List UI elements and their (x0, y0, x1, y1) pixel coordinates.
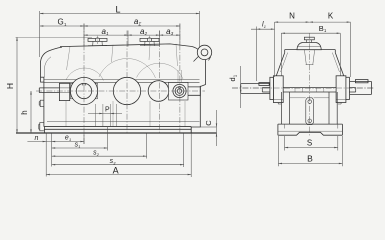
right view horizontal centerline (232, 87, 374, 89)
input shaft key (259, 83, 269, 86)
extension line C upper (200, 126, 216, 128)
housing right edge upper (205, 59, 207, 85)
lifting eye boss (194, 57, 211, 62)
svg-text:C: C (204, 120, 213, 126)
dimension L (40, 13, 200, 15)
extension B1 right (339, 33, 341, 75)
extension key left end (256, 27, 258, 82)
dimension B1 (281, 32, 340, 34)
lower body right wall (329, 92, 337, 124)
dimension e1 (46, 141, 84, 143)
cover flange lip (41, 77, 44, 82)
parting flange band (262, 88, 355, 92)
housing left wall (43, 82, 45, 127)
base bolt tick right (337, 124, 339, 128)
output shaft stub (188, 86, 200, 96)
dimension a-sigma (84, 25, 180, 27)
horizontal centerline left view (36, 90, 205, 92)
extension below shaft1 (83, 134, 85, 145)
cover left wall (39, 64, 41, 78)
shaft 2 bearing circle (113, 77, 140, 104)
housing top-right corner curve (192, 47, 206, 60)
foot extension line A left (45, 134, 47, 177)
cover inner right slope (332, 53, 339, 72)
housing right edge step (191, 85, 205, 128)
right cap bottom line (336, 99, 346, 101)
bolt extension line 3 (146, 134, 148, 159)
cover right slope (335, 53, 343, 76)
svg-text:n: n (35, 135, 39, 142)
bolt line P left (94, 104, 96, 127)
dimension s1 (52, 147, 108, 149)
svg-text:K: K (328, 12, 334, 21)
centerline shaft 2 (126, 31, 128, 134)
output bearing boss (169, 83, 189, 101)
input shaft (39, 88, 59, 93)
breather dome mid line (297, 46, 320, 48)
housing top-left cover arc (40, 47, 62, 63)
gear arc over shaft 3 (137, 63, 184, 79)
output shaft key (355, 80, 368, 83)
svg-text:H: H (5, 83, 15, 89)
bolt line P a (102, 104, 104, 127)
rib line 3 (149, 44, 150, 60)
svg-text:S: S (307, 139, 312, 148)
cap 2 center tick (149, 36, 151, 44)
shaft 1 bore circle (76, 83, 91, 98)
flange tick 4 (323, 88, 325, 92)
bolt extension line 2 (107, 127, 109, 151)
extension B right (341, 136, 343, 166)
bolt extension line 1 (51, 134, 53, 167)
dimension a1 (84, 34, 128, 36)
svg-text:L: L (115, 4, 120, 14)
extension right cap face (349, 22, 351, 77)
housing lower inner line (47, 121, 200, 123)
left cap bottom line (273, 99, 283, 101)
svg-text:A: A (113, 166, 119, 176)
right bearing boss (336, 76, 346, 103)
lower rib 2 (112, 101, 114, 127)
dimension a2 (128, 34, 160, 36)
cover left slope (276, 53, 284, 76)
svg-text:B: B (307, 154, 313, 164)
right view vertical centerline (308, 33, 310, 137)
right view horizontal centerline overlay (232, 87, 374, 89)
lower rib 4 (184, 101, 186, 127)
left bearing boss (273, 76, 283, 103)
dimension d1 (240, 66, 242, 108)
shaft 3 bearing circle (148, 81, 169, 102)
oil filler neck right (313, 50, 315, 65)
housing base foot (44, 127, 191, 133)
lifting eye outer circle (197, 45, 211, 59)
extension shaft4 top (179, 24, 181, 46)
rib line 2 (112, 45, 114, 62)
oil gauge lower hole (308, 119, 312, 123)
bolt line P right (116, 104, 118, 127)
base plate (278, 124, 343, 135)
inspection cap 2 (140, 38, 159, 41)
base bottom profile (278, 132, 343, 135)
extension shaft2 top (127, 31, 129, 47)
right bearing cap (346, 77, 350, 99)
lower rib 3 (149, 101, 151, 127)
extension left cap face (274, 22, 276, 77)
shaft 1 keyway (82, 84, 86, 86)
gear arc over shaft 2 (99, 58, 156, 78)
centerline shaft 4 (179, 24, 181, 134)
flange tick 2 (301, 88, 303, 92)
rib line 4 (176, 44, 178, 66)
dimension K (309, 21, 350, 23)
oil gauge upper hole (308, 100, 312, 104)
centerline shaft 1 (83, 24, 85, 145)
foot extension line A right (190, 134, 192, 178)
eye support ribs (178, 70, 182, 82)
housing inner cover arc (44, 57, 51, 77)
dimension h (30, 91, 32, 133)
bolt line P b (109, 104, 111, 127)
extension B left (277, 136, 279, 166)
extension line C vertical (216, 110, 218, 146)
left boss bottom step (278, 103, 281, 105)
breather knob (304, 37, 314, 40)
base inner line (278, 130, 343, 132)
rib line 1 (67, 46, 71, 70)
dimension s2 (52, 155, 147, 157)
dimension a3 (160, 34, 180, 36)
dimension A (46, 174, 191, 176)
dimension S (285, 147, 338, 149)
extension S right (337, 136, 339, 151)
housing top edge (60, 44, 192, 47)
bearing boss shaft 1 (71, 83, 98, 99)
oil level gauge tab (39, 100, 44, 106)
output shaft end view (350, 82, 372, 95)
flange tick 1 (294, 88, 296, 92)
oil filler neck left (304, 50, 306, 65)
parting flange line lower (44, 81, 200, 83)
breather dome (297, 43, 321, 50)
extension shaft3 top (159, 31, 161, 47)
lower body rib line (290, 97, 306, 99)
lower rib 1 (65, 101, 67, 127)
centerline shaft 3 (159, 31, 161, 134)
breather legs (307, 40, 312, 43)
svg-text:P: P (105, 107, 110, 114)
extension S left (284, 136, 286, 151)
oil drain plug tab (39, 123, 44, 131)
left view ground/base line (16, 132, 217, 134)
base bolt tick left (284, 124, 286, 128)
flange tick 3 (316, 88, 318, 92)
dimension B (278, 162, 342, 164)
svg-text:h: h (20, 110, 29, 114)
lower body left wall (281, 92, 289, 124)
input shaft end view (241, 84, 270, 94)
dimension C (216, 123, 217, 127)
gear arc over shaft 1 (66, 68, 104, 80)
extension B1 left (280, 33, 282, 75)
dimension P (88, 112, 122, 114)
parting flange line upper (44, 79, 200, 81)
dimension l1 (251, 28, 275, 30)
cover top plate (285, 50, 336, 53)
extension line left of housing (39, 11, 41, 57)
bolt extension line 4 (183, 134, 185, 168)
oil filler neck bottom (306, 64, 314, 66)
oil gauge slot (306, 98, 314, 125)
left bearing cap (270, 77, 274, 99)
input shaft through cap (59, 88, 70, 93)
output shaft circle outer (173, 84, 186, 97)
dimension G1 (40, 25, 84, 27)
dimension s3 (52, 164, 184, 166)
dimension H (16, 37, 18, 133)
dimension n (27, 141, 46, 143)
output shaft circle bore (177, 89, 181, 93)
input bearing cap (59, 83, 69, 100)
extension line top of caps (16, 36, 93, 38)
extension line right for L (199, 11, 201, 48)
lifting eye hole (201, 49, 208, 56)
shaft 1 bearing circle (70, 77, 97, 104)
cover inner left slope (281, 53, 288, 72)
right boss bottom step (338, 103, 341, 105)
output shaft circle mid (175, 87, 184, 96)
cap 1 center tick (97, 36, 99, 44)
svg-text:N: N (289, 12, 295, 21)
extension shaft1 top (83, 24, 85, 46)
dimension N (275, 21, 310, 23)
inspection cap 1 (88, 38, 107, 41)
